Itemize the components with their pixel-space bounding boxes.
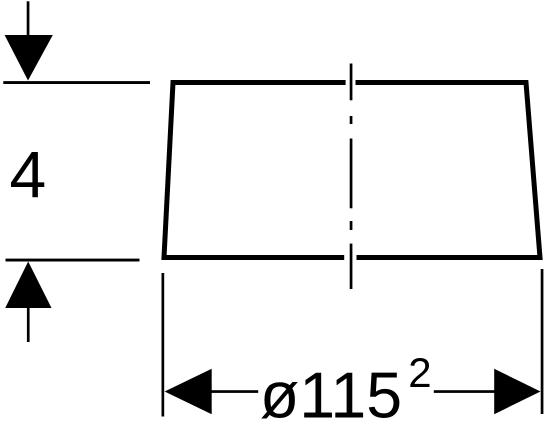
svg-text:ø115: ø115 [260,359,402,424]
svg-text:4: 4 [10,138,47,212]
centerline dash 3 [350,244,353,289]
dimension leader stem top [27,1,30,35]
extension line left [162,273,165,417]
arrowhead down [5,35,53,81]
arrowhead right [494,369,540,414]
trapezoid body outline [164,83,540,258]
centerline short dash 1 [350,116,353,124]
arrowhead up [5,262,51,309]
dimension line left segment [210,390,258,393]
gap in bottom edge at centerline [344,253,356,262]
arrowhead left [165,369,212,414]
dimension line right segment [434,390,495,393]
dimension leader stem bottom [27,308,30,342]
svg-text:2: 2 [408,349,431,396]
centerline short dash 2 [350,221,353,230]
serif foot of second 1 [336,413,362,418]
serif foot of first 1 [305,413,331,418]
gap in top edge at centerline [346,79,356,88]
extension line right [541,269,544,414]
dimension reference line top [3,81,150,84]
dimension reference line bottom [6,259,140,262]
centerline dash 1 [350,64,353,101]
centerline dash 2 [350,139,353,209]
